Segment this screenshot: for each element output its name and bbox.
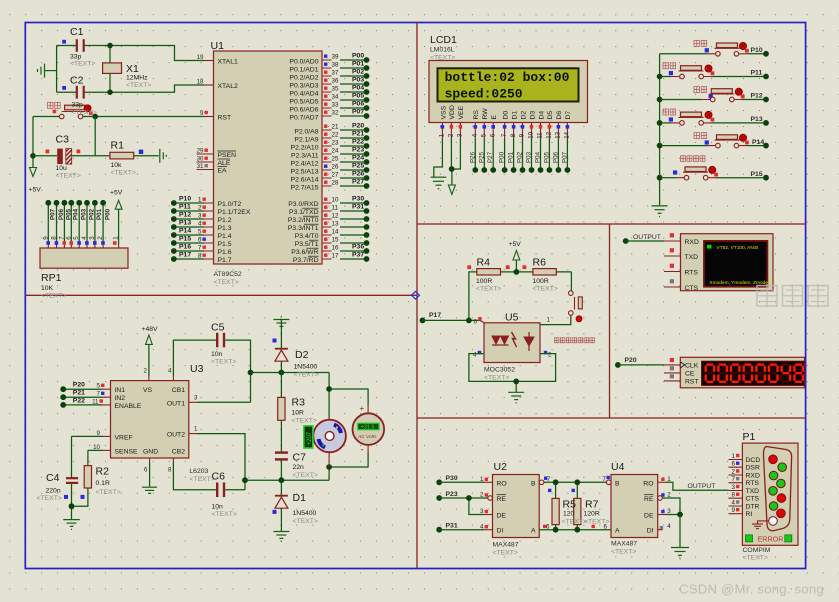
svg-text:DI: DI — [647, 528, 654, 535]
svg-text:P03: P03 — [352, 77, 364, 84]
svg-text:E: E — [491, 115, 498, 120]
P1 pin markers — [736, 454, 739, 512]
C4 labels — [37, 472, 62, 502]
svg-text:DE: DE — [497, 513, 507, 520]
svg-text:19: 19 — [197, 54, 204, 61]
bus pin markers — [543, 477, 595, 529]
svg-text:11: 11 — [332, 205, 339, 212]
svg-text:P12: P12 — [179, 212, 191, 219]
node junction OUT2/C6 — [242, 477, 248, 483]
resistor R4 — [477, 269, 501, 275]
svg-text:P01: P01 — [96, 208, 103, 220]
svg-text:2: 2 — [198, 205, 202, 212]
svg-text:P03: P03 — [526, 151, 533, 163]
D2 labels — [294, 349, 319, 379]
U2 right pin numbers — [546, 476, 551, 531]
svg-text:<TEXT>: <TEXT> — [294, 372, 319, 379]
net labels P00-P07 rotated — [499, 151, 569, 163]
7seg digit 8 value 8 — [794, 365, 802, 382]
svg-text:12MHz: 12MHz — [126, 75, 148, 82]
resistor R7 — [574, 479, 581, 532]
capacitor C2 — [77, 86, 84, 99]
U1 P3 pin markers — [324, 198, 327, 257]
svg-text:P03: P03 — [81, 208, 88, 220]
svg-text:P2.2/A10: P2.2/A10 — [291, 145, 319, 152]
svg-text:RE: RE — [497, 496, 507, 503]
red markers R4 R6 — [467, 265, 526, 269]
svg-text:RI: RI — [746, 511, 753, 518]
svg-text:VEE: VEE — [458, 105, 465, 119]
svg-text:+48V: +48V — [142, 326, 159, 333]
svg-text:P17: P17 — [429, 312, 441, 319]
svg-text:17: 17 — [332, 253, 339, 260]
7-segment counter body — [680, 357, 804, 388]
svg-text:+: + — [360, 404, 365, 413]
svg-text:27: 27 — [332, 172, 339, 179]
svg-text:P36: P36 — [352, 244, 364, 251]
svg-text:38: 38 — [332, 62, 339, 69]
U1 P3 right pins wires — [322, 200, 369, 262]
sensor label 模拟光电传感器 — [555, 338, 595, 343]
svg-text:6: 6 — [546, 523, 550, 530]
svg-text:LM016L: LM016L — [430, 47, 455, 54]
svg-text:P3.6/WR: P3.6/WR — [291, 249, 318, 256]
wire to voltmeter plus — [329, 389, 368, 406]
counter pin markers — [670, 358, 674, 379]
wire C3 row — [33, 155, 159, 157]
svg-text:P13: P13 — [179, 220, 191, 227]
net P17 wire — [420, 312, 480, 323]
svg-text:P25: P25 — [352, 163, 364, 170]
svg-text:P27: P27 — [487, 151, 494, 163]
svg-text:P20: P20 — [625, 357, 637, 364]
wire C6 to OUT2 node — [225, 489, 245, 491]
partition line right mid vertical — [609, 224, 611, 418]
U2 B wire to bus — [539, 480, 606, 485]
node junction RST/C3R1 — [92, 114, 98, 120]
svg-text:<TEXT>: <TEXT> — [293, 518, 318, 525]
U3 top pin stubs VS CB1 — [144, 368, 174, 381]
svg-text:C1: C1 — [70, 26, 84, 38]
svg-text:31: 31 — [197, 163, 204, 170]
svg-text:P06: P06 — [58, 208, 65, 220]
svg-text:P3.2/INT0: P3.2/INT0 — [288, 217, 319, 224]
net P23 wire to U2 RE — [436, 491, 492, 501]
wire R4 left down to P17 row — [469, 272, 477, 321]
U2 RE overline — [497, 494, 507, 496]
U4 right pin markers — [660, 478, 665, 530]
svg-text:4: 4 — [168, 368, 172, 375]
svg-text:P12: P12 — [751, 93, 763, 100]
svg-text:13: 13 — [332, 221, 339, 228]
svg-text:P2.7/A15: P2.7/A15 — [291, 185, 319, 192]
ground right of R1 — [160, 149, 167, 163]
node junction C1/X1 — [107, 43, 113, 49]
LCD pin numbers rotated — [439, 131, 571, 138]
node junction C3 left — [30, 153, 36, 159]
svg-text:6: 6 — [474, 318, 478, 325]
RP1 labels — [41, 272, 66, 300]
terminal pin markers — [670, 233, 674, 283]
svg-text:6: 6 — [489, 133, 496, 137]
svg-text:L6203: L6203 — [189, 468, 208, 475]
svg-text:P1.5: P1.5 — [218, 241, 232, 248]
svg-text:P31: P31 — [446, 522, 458, 529]
svg-text:-: - — [361, 445, 364, 455]
svg-text:8: 8 — [510, 133, 517, 137]
R1 labels — [111, 140, 136, 177]
LCD pin stubs — [442, 123, 567, 139]
svg-text:DCD: DCD — [746, 457, 761, 464]
resistor R3 — [278, 373, 285, 453]
wires RS RW E to nodes — [472, 139, 496, 173]
svg-text:ERROR: ERROR — [758, 534, 784, 543]
node junction U5 gnd — [513, 379, 519, 385]
svg-text:P00: P00 — [499, 151, 506, 163]
svg-text:P23: P23 — [446, 491, 458, 498]
svg-text:P01: P01 — [508, 151, 515, 163]
svg-text:EA: EA — [218, 168, 228, 175]
7seg digit 1 value 0 — [706, 365, 714, 382]
svg-text:P1.4: P1.4 — [218, 233, 232, 240]
svg-text:U1: U1 — [211, 40, 225, 52]
CLK clock arrow — [680, 362, 685, 368]
button 后停 row3 — [660, 87, 769, 103]
svg-text:B: B — [531, 480, 536, 487]
U4 B input circle — [606, 480, 611, 485]
U1 pin 31 EA stub — [197, 163, 214, 170]
svg-text:<TEXT>: <TEXT> — [476, 286, 501, 293]
R4 labels — [476, 257, 501, 293]
svg-text:<TEXT>: <TEXT> — [56, 173, 81, 180]
svg-text:120: 120 — [563, 511, 575, 518]
bus junctions — [657, 74, 663, 181]
D1 labels — [293, 492, 318, 525]
U1 internal left pin names — [218, 59, 251, 265]
svg-text:P14: P14 — [179, 228, 191, 235]
svg-text:22: 22 — [332, 132, 339, 139]
diode D2 1N5400 — [275, 320, 288, 373]
net labels P20-P27 — [352, 123, 364, 186]
svg-text:10: 10 — [93, 444, 100, 451]
U4 internal pin names — [615, 480, 620, 534]
svg-text:6: 6 — [144, 467, 148, 474]
7seg digit 7 value 4 — [782, 365, 790, 382]
DB9 connector outline — [763, 447, 791, 531]
svg-text:33p: 33p — [70, 54, 82, 61]
U1 internal right pin names — [288, 59, 319, 265]
svg-text:P00: P00 — [352, 53, 364, 60]
U4 DI stub — [658, 529, 663, 531]
svg-text:7: 7 — [602, 476, 606, 483]
svg-text:P25: P25 — [478, 151, 485, 163]
U3 OUT1 wire — [189, 395, 251, 403]
op chip U1 AT89C52 body — [214, 51, 323, 264]
svg-text:P3.1/TXD: P3.1/TXD — [289, 209, 319, 216]
svg-text:10k: 10k — [111, 162, 123, 169]
svg-text:<TEXT>: <TEXT> — [96, 489, 121, 496]
svg-text:1: 1 — [113, 236, 120, 240]
svg-text:D1: D1 — [293, 492, 307, 504]
svg-text:CB1: CB1 — [172, 387, 185, 394]
svg-text:<TEXT>: <TEXT> — [111, 170, 136, 177]
svg-text:P2.0/A8: P2.0/A8 — [294, 129, 318, 136]
svg-text:SENSE: SENSE — [115, 448, 139, 455]
LCD screen — [438, 68, 579, 101]
svg-text:34: 34 — [332, 94, 339, 101]
wire voltmeter minus — [329, 453, 368, 468]
U1 P1 left pins with wires — [171, 200, 214, 262]
svg-text:CB2: CB2 — [172, 448, 185, 455]
ground above D2 — [273, 316, 289, 326]
U1 P2 pin numbers — [332, 124, 339, 187]
diode D1 1N5400 — [275, 480, 288, 531]
RP1 pin wires and nodes — [45, 200, 118, 248]
U5 pin6 stub — [480, 320, 485, 322]
svg-text:AC Volts: AC Volts — [357, 434, 377, 440]
R2 labels — [96, 466, 121, 497]
svg-text:8: 8 — [732, 492, 736, 499]
svg-text:P1.3: P1.3 — [218, 225, 232, 232]
svg-text:P17: P17 — [179, 252, 191, 259]
power +5V arrow — [509, 241, 522, 272]
P1 pin names — [746, 457, 761, 518]
svg-text:2: 2 — [97, 236, 104, 240]
svg-text:TXD: TXD — [685, 254, 699, 261]
svg-text:P01: P01 — [352, 61, 364, 68]
overlines PSEN ALE EA — [218, 151, 237, 167]
svg-text:P02: P02 — [517, 151, 524, 163]
svg-text:6: 6 — [65, 236, 72, 240]
svg-text:11: 11 — [537, 132, 544, 139]
svg-text:2: 2 — [732, 469, 736, 476]
svg-text:39: 39 — [332, 54, 339, 61]
RP1 pin markers — [46, 241, 116, 245]
svg-text:6: 6 — [198, 237, 202, 244]
svg-text:D7: D7 — [565, 111, 572, 120]
svg-text:28: 28 — [332, 180, 339, 187]
svg-text:P1.0/T2: P1.0/T2 — [218, 201, 242, 208]
svg-text:D3: D3 — [529, 111, 536, 120]
net labels P20 P21 P22 — [73, 382, 85, 405]
svg-text:LCD1: LCD1 — [430, 34, 457, 46]
svg-text:P0.0/AD0: P0.0/AD0 — [289, 59, 318, 66]
svg-text:10: 10 — [528, 131, 535, 138]
node junction P17/R4 — [466, 318, 472, 324]
ground below U3 — [142, 487, 157, 493]
svg-text:P21: P21 — [352, 131, 364, 138]
svg-text:P0.7/AD7: P0.7/AD7 — [289, 115, 318, 122]
sensor switch red indicator — [576, 316, 582, 322]
svg-text:P30: P30 — [446, 475, 458, 482]
svg-text:R4: R4 — [477, 257, 491, 269]
U1 pin 9 RST stub — [200, 110, 213, 117]
svg-text:IN1: IN1 — [115, 387, 126, 394]
connector P1 COMPIM body — [742, 443, 798, 545]
svg-text:<TEXT>: <TEXT> — [126, 82, 151, 89]
svg-text:P26: P26 — [352, 171, 364, 178]
svg-text:P37: P37 — [352, 252, 364, 259]
svg-text:+207: +207 — [307, 431, 313, 445]
U1 P2 right pins wires — [322, 127, 369, 189]
U1 pin 29 PSEN stub — [197, 148, 214, 155]
terminal pin stubs — [664, 241, 681, 287]
svg-text:P04: P04 — [535, 151, 542, 163]
svg-text:P02: P02 — [88, 208, 95, 220]
svg-text:VT52, VT100, ANSI: VT52, VT100, ANSI — [717, 245, 759, 251]
svg-text:C5: C5 — [211, 322, 225, 334]
svg-text:36: 36 — [332, 78, 339, 85]
U2 part labels — [493, 542, 519, 557]
svg-text:VDD: VDD — [449, 105, 456, 119]
wire X1 bottom — [109, 73, 111, 92]
svg-text:35: 35 — [332, 86, 339, 93]
U2 A wire to bus — [539, 529, 611, 531]
svg-text:P06: P06 — [352, 101, 364, 108]
svg-text:P10: P10 — [751, 47, 763, 54]
svg-text:A: A — [531, 528, 536, 535]
P1 shield mini ground — [752, 521, 769, 529]
svg-text:14: 14 — [332, 229, 339, 236]
svg-text:1: 1 — [439, 133, 446, 137]
svg-text:8: 8 — [51, 236, 58, 240]
partition line vertical center — [416, 23, 418, 569]
svg-text:PSEN: PSEN — [218, 152, 237, 159]
svg-text:C6: C6 — [212, 471, 226, 483]
U5 output loop wires — [469, 354, 556, 392]
svg-text:4: 4 — [667, 523, 671, 530]
svg-text:C3: C3 — [56, 134, 70, 146]
svg-text:P0.2/AD2: P0.2/AD2 — [289, 75, 318, 82]
capacitor C3 polarized — [57, 149, 72, 165]
resistor R1 — [110, 152, 134, 159]
svg-text:+5V: +5V — [509, 241, 522, 248]
partition line left horizontal — [25, 294, 417, 296]
svg-text:P20: P20 — [73, 382, 85, 389]
7seg digit 2 value 0 — [718, 365, 726, 382]
svg-text:P13: P13 — [751, 116, 763, 123]
svg-text:+5V: +5V — [29, 187, 42, 194]
svg-text:9: 9 — [42, 236, 49, 240]
counter display — [702, 361, 804, 385]
D2 blue marker — [273, 339, 277, 343]
svg-text:9: 9 — [519, 133, 526, 137]
svg-text:P0.1/AD1: P0.1/AD1 — [289, 67, 318, 74]
wire C1 row to XTAL1 — [57, 46, 204, 61]
RP1 +5V up arrow — [110, 190, 123, 245]
svg-text:3: 3 — [89, 236, 96, 240]
svg-text:P30: P30 — [352, 196, 364, 203]
ground below VSS — [431, 177, 447, 188]
svg-text:GND: GND — [143, 448, 158, 455]
svg-text:XTAL1: XTAL1 — [218, 59, 238, 66]
P1 pin circles — [769, 455, 787, 525]
LCD1 LM016L body — [429, 61, 588, 123]
svg-text:P07: P07 — [352, 109, 364, 116]
svg-text:RST: RST — [218, 115, 232, 122]
capacitor C6 — [217, 483, 224, 498]
wire VSS to ground — [434, 139, 443, 178]
partition line right lower horizontal — [417, 417, 806, 419]
svg-text:RXD: RXD — [746, 473, 760, 480]
wire R4-R6 row — [501, 272, 572, 291]
svg-text:P05: P05 — [352, 93, 364, 100]
U4 RE circle and tie to DE — [658, 496, 680, 515]
motor rpm display — [304, 426, 313, 448]
svg-text:37: 37 — [332, 70, 339, 77]
svg-text:33: 33 — [332, 102, 339, 109]
reset red markers — [53, 110, 57, 114]
resistor R6 — [533, 269, 556, 275]
net labels P10-P17 — [179, 196, 191, 259]
overlines INT0 INT1 T1 WR RD — [302, 208, 319, 256]
svg-text:U2: U2 — [494, 461, 508, 473]
terminal screen green block — [707, 245, 712, 249]
transceiver U4 MAX487 body — [611, 475, 658, 538]
svg-text:9: 9 — [732, 507, 736, 514]
R6 labels — [533, 257, 558, 293]
net labels P00-P07 — [352, 53, 364, 116]
U1 pin 30 ALE stub — [197, 156, 214, 163]
U1 P1 pin numbers — [198, 197, 202, 260]
lower node wire row — [245, 467, 329, 480]
optocoupler U5 MOC3052 body — [484, 323, 540, 363]
power +5V down arrow left — [29, 168, 42, 194]
capacitor C4 — [66, 478, 78, 483]
C5 labels — [211, 322, 236, 366]
svg-text:2: 2 — [448, 133, 455, 137]
node junction +5V — [514, 269, 520, 275]
svg-text:5: 5 — [73, 236, 80, 240]
node junction motor top branch — [326, 386, 332, 392]
R3 labels — [292, 397, 317, 425]
svg-text:11: 11 — [92, 398, 99, 405]
svg-text:X1: X1 — [126, 63, 139, 75]
svg-text:10u: 10u — [56, 165, 68, 172]
svg-text:<TEXT>: <TEXT> — [743, 555, 768, 562]
node junction OUT1/C5/D2 — [248, 370, 254, 376]
ERROR indicator — [746, 534, 792, 543]
DC motor — [313, 420, 346, 453]
net OUTPUT terminal wire — [623, 234, 664, 244]
svg-text:A: A — [615, 528, 620, 535]
svg-text:4: 4 — [473, 352, 477, 359]
svg-text:10n: 10n — [211, 351, 223, 358]
button 加速 row4 — [660, 109, 769, 126]
C2 value labels — [72, 102, 97, 117]
svg-text:<TEXT>: <TEXT> — [484, 375, 509, 382]
svg-text:7: 7 — [501, 133, 508, 137]
motor pin stubs — [328, 418, 330, 468]
U5 pin numbers and markers — [473, 317, 552, 359]
svg-text:RP1: RP1 — [41, 272, 62, 284]
svg-text:VS: VS — [143, 387, 153, 394]
P1 pin stubs — [729, 460, 743, 514]
svg-text:P23: P23 — [352, 147, 364, 154]
svg-text:P10: P10 — [179, 196, 191, 203]
svg-text:2: 2 — [480, 492, 484, 499]
svg-text:D0: D0 — [502, 111, 509, 120]
svg-text:AT89C52: AT89C52 — [214, 271, 242, 278]
terminal screen text — [709, 245, 772, 286]
svg-text:speed:0250: speed:0250 — [445, 87, 523, 102]
node junction C4/R2 — [69, 503, 75, 509]
sensor switch — [569, 291, 583, 316]
svg-text:P1: P1 — [743, 431, 756, 443]
capacitor C5 — [217, 333, 224, 348]
terminal screen — [704, 241, 767, 287]
U3 internal pin names — [115, 387, 159, 455]
